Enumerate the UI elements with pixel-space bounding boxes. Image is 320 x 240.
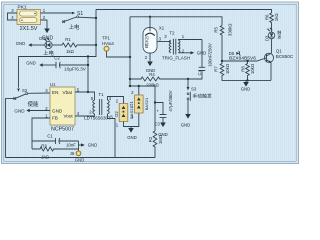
wire D1 anode to HV rail bbox=[138, 86, 140, 95]
svg-text:R7: R7 bbox=[214, 66, 219, 72]
svg-text:EN: EN bbox=[52, 90, 58, 95]
wire PK1 pin2 to ground bbox=[41, 20, 48, 29]
inner HV top rail bbox=[130, 17, 222, 26]
node Vbat vertical bbox=[19, 10, 97, 88]
transistor Q1 BC850C bbox=[264, 49, 293, 81]
svg-text:GND: GND bbox=[146, 68, 156, 73]
svg-text:S3: S3 bbox=[191, 87, 197, 92]
svg-text:T2: T2 bbox=[169, 30, 175, 35]
switch S2 使能 bbox=[6, 88, 51, 158]
svg-text:C2: C2 bbox=[54, 56, 60, 61]
resistor R5 330kΩ bbox=[220, 26, 224, 62]
svg-text:BAS21: BAS21 bbox=[144, 97, 149, 110]
svg-text:GND: GND bbox=[241, 87, 251, 92]
resistor R4 220kΩ bbox=[130, 71, 202, 82]
svg-text:BZX84B5V6: BZX84B5V6 bbox=[229, 55, 256, 61]
svg-text:手动触发: 手动触发 bbox=[193, 92, 212, 99]
svg-text:发: 发 bbox=[277, 34, 281, 39]
svg-text:Vbat: Vbat bbox=[63, 90, 73, 95]
svg-text:1kΩ: 1kΩ bbox=[274, 13, 279, 22]
switch S1 上电 bbox=[62, 11, 96, 31]
ground under PK1 pin2 bbox=[44, 29, 50, 34]
battery pack PK1 bbox=[11, 5, 46, 32]
svg-text:T1: T1 bbox=[98, 92, 104, 97]
wire U1 Vout pin4 to T1 primary bottom bbox=[75, 114, 95, 116]
svg-text:D2: D2 bbox=[114, 111, 119, 117]
svg-text:GND: GND bbox=[127, 135, 137, 140]
wire R1 to Vbat node bbox=[77, 44, 96, 46]
resistor R2 1MΩ bbox=[153, 131, 157, 158]
diode D2 BAS21 bbox=[114, 99, 134, 128]
wire GND to D4 bbox=[32, 44, 45, 46]
svg-text:R2: R2 bbox=[148, 136, 153, 142]
svg-text:D4: D4 bbox=[39, 36, 45, 41]
svg-text:BC850C: BC850C bbox=[276, 54, 294, 59]
svg-text:C4: C4 bbox=[197, 69, 202, 75]
ground under R8/Q1 bbox=[245, 80, 247, 82]
node joining C1/R3 to GND arrow bbox=[78, 141, 80, 151]
op-amp U1 NCP5007 bbox=[45, 82, 80, 133]
trigger transformer T2 TRIG_FLASH bbox=[162, 30, 206, 60]
svg-text:上电: 上电 bbox=[43, 49, 54, 57]
node vertical x88 bbox=[87, 57, 89, 93]
svg-text:GND: GND bbox=[197, 50, 207, 55]
svg-text:J6: J6 bbox=[70, 151, 75, 156]
resistor R8 10kΩ bbox=[246, 61, 250, 80]
resistor R1 1kΩ bbox=[62, 43, 77, 47]
svg-text:R6: R6 bbox=[265, 14, 270, 20]
svg-text:HVout: HVout bbox=[102, 41, 115, 46]
svg-text:C3: C3 bbox=[154, 121, 160, 126]
svg-text:10kΩ: 10kΩ bbox=[250, 63, 255, 74]
svg-text:R1: R1 bbox=[65, 37, 71, 42]
svg-text:D3: D3 bbox=[265, 35, 270, 41]
svg-text:GND: GND bbox=[16, 41, 26, 46]
resistor R7 10kΩ bbox=[220, 61, 271, 80]
wire PK1 pin1 to S1 bbox=[41, 12, 73, 14]
wire T1 pin3 to bottom rail bbox=[108, 114, 116, 158]
capacitor C3 47uF/380V bbox=[154, 90, 173, 136]
diode D1 BAS21 bbox=[129, 90, 149, 119]
wire FB pin1 bbox=[32, 118, 50, 149]
svg-text:管: 管 bbox=[145, 44, 149, 49]
transformer T1 LDT565630T bbox=[84, 92, 113, 121]
svg-text:1MΩ: 1MΩ bbox=[158, 134, 163, 144]
LED D3 触发 bbox=[265, 28, 282, 54]
svg-text:GND: GND bbox=[181, 123, 191, 128]
wire D4 to R1 bbox=[52, 44, 62, 46]
bottom rail wire bbox=[6, 157, 156, 159]
svg-text:GND: GND bbox=[88, 143, 98, 148]
LED D4 上电 bbox=[39, 36, 54, 57]
sheet background bbox=[0, 0, 300, 166]
inner frame bbox=[4, 4, 296, 161]
svg-text:D1: D1 bbox=[129, 101, 134, 107]
svg-text:X1: X1 bbox=[159, 26, 165, 31]
svg-text:R8: R8 bbox=[241, 66, 246, 72]
wire PK1 pins 3-4 jumper bbox=[8, 13, 18, 20]
svg-text:上电: 上电 bbox=[69, 23, 80, 31]
HV rail to C3/R2 bbox=[130, 86, 155, 131]
svg-text:2X1.5V: 2X1.5V bbox=[20, 26, 38, 32]
wire U1 Vbat pin5 to T1 bbox=[75, 92, 95, 100]
capacitor C4 100nF/250V bbox=[197, 40, 213, 76]
svg-text:10nF: 10nF bbox=[66, 143, 76, 148]
svg-text:TRIG_FLASH: TRIG_FLASH bbox=[162, 55, 190, 60]
svg-text:100nF/250V: 100nF/250V bbox=[208, 43, 213, 67]
flash tube X1 bbox=[143, 16, 171, 73]
svg-text:220kΩ: 220kΩ bbox=[146, 83, 159, 88]
svg-text:PK1: PK1 bbox=[18, 5, 27, 11]
svg-text:Vout: Vout bbox=[64, 114, 74, 119]
svg-text:使能: 使能 bbox=[28, 100, 39, 108]
svg-text:10μF/6.3V: 10μF/6.3V bbox=[64, 67, 87, 72]
svg-text:GND: GND bbox=[52, 108, 63, 113]
resistor R6 1kΩ bbox=[270, 13, 274, 32]
wire T1 pin4 to D2 bbox=[108, 97, 124, 104]
switch S3 手动触发 bbox=[181, 79, 212, 128]
svg-text:U1: U1 bbox=[50, 82, 56, 87]
svg-text:C1: C1 bbox=[47, 133, 53, 138]
svg-text:S2: S2 bbox=[22, 88, 28, 93]
test point J6 bbox=[76, 151, 81, 156]
svg-text:TP1: TP1 bbox=[102, 36, 110, 41]
zener D5 BZX84B5V6 bbox=[222, 58, 267, 61]
svg-text:GND: GND bbox=[75, 158, 85, 163]
svg-text:1kΩ: 1kΩ bbox=[66, 49, 75, 54]
wire top Vbat rail bbox=[96, 10, 272, 14]
wire D2/D1 cathodes to ground bbox=[124, 113, 139, 127]
svg-text:GND: GND bbox=[26, 61, 36, 66]
svg-text:GND: GND bbox=[14, 108, 25, 113]
svg-text:R5: R5 bbox=[214, 26, 219, 32]
svg-text:LDT565630T: LDT565630T bbox=[84, 115, 111, 120]
svg-text:47μF/380V: 47μF/380V bbox=[168, 90, 173, 111]
HV vertical line x130 bbox=[129, 17, 131, 86]
svg-text:NCP5007: NCP5007 bbox=[51, 127, 74, 133]
test point TP1 HVout bbox=[102, 36, 130, 58]
svg-text:FB: FB bbox=[52, 116, 58, 121]
svg-text:330kΩ: 330kΩ bbox=[228, 23, 233, 36]
svg-text:10kΩ: 10kΩ bbox=[225, 63, 230, 74]
